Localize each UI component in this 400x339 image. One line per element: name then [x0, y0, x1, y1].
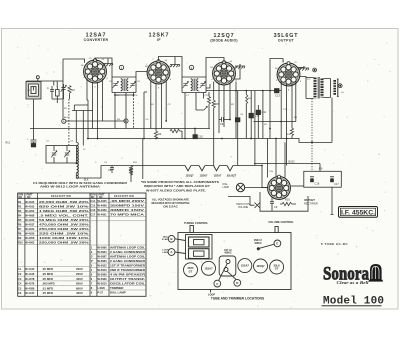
- svg-text:220,000 OHM .5W 20%: 220,000 OHM .5W 20%: [39, 241, 89, 245]
- ground at U2: [170, 57, 180, 68]
- svg-text:C15: C15: [90, 203, 95, 207]
- svg-text:NO: NO: [27, 197, 31, 199]
- wire T2 to U3 diode: [206, 84, 210, 88]
- svg-text:DESCRIPTION: DESCRIPTION: [114, 196, 134, 198]
- svg-text:W-5623: W-5623: [98, 268, 108, 272]
- svg-text:W-5689: W-5689: [98, 277, 108, 281]
- svg-text:W-4689: W-4689: [98, 208, 108, 212]
- svg-text:.005 MFD: .005 MFD: [42, 282, 55, 286]
- capacitor C4 on filament bus: [108, 166, 114, 174]
- trimmer pointer A: [168, 249, 175, 256]
- svg-text:C8: C8: [220, 122, 224, 126]
- resistor R7 diagonal: [246, 91, 248, 139]
- svg-text:C4: C4: [18, 282, 22, 286]
- note C1 required: [33, 181, 128, 189]
- svg-text:NO: NO: [19, 197, 23, 199]
- svg-text:12SK7: 12SK7: [200, 173, 208, 177]
- tube U4 35L6GT output: [275, 61, 303, 92]
- wire grid line of U1: [63, 59, 85, 119]
- svg-text:W-5622: W-5622: [98, 264, 108, 268]
- svg-text:E: E: [276, 242, 278, 246]
- svg-text:Clear as a Bell: Clear as a Bell: [337, 280, 370, 285]
- bus AVC y121: [66, 120, 126, 122]
- capacitor C8 coupling: [219, 117, 230, 126]
- volume control shaft: [275, 227, 278, 233]
- ground at U4: [298, 66, 310, 71]
- svg-text:20,000 OHM .5W 20%: 20,000 OHM .5W 20%: [39, 200, 89, 204]
- loop antenna L1: [26, 82, 41, 100]
- svg-text:12SA7: 12SA7: [214, 173, 222, 177]
- tube U1 12SA7 converter: [81, 58, 109, 89]
- svg-text:W-5688: W-5688: [98, 273, 108, 277]
- tube U3 12SQ7 detector: [210, 60, 238, 91]
- resistor R10: [280, 198, 296, 206]
- svg-text:W-1346: W-1346: [25, 272, 35, 276]
- svg-text:220 OHM .5W 10%: 220 OHM .5W 10%: [39, 232, 89, 236]
- gang condenser dashed gang line: [68, 99, 70, 146]
- svg-text:W-4029: W-4029: [25, 232, 35, 236]
- table left section entries: [18, 200, 89, 295]
- note components replaced: [141, 180, 219, 192]
- svg-text:AVC: AVC: [64, 116, 69, 119]
- resistor R12 on filament bus: [129, 166, 132, 177]
- svg-text:B153: B153: [289, 159, 296, 163]
- svg-text:R13: R13: [6, 142, 11, 145]
- svg-text:DESCRIPTION: DESCRIPTION: [51, 196, 71, 198]
- chassis diagram labels: [162, 220, 294, 301]
- svg-text:R9: R9: [319, 167, 323, 171]
- tube socket 35Z5GT: [184, 263, 198, 277]
- resistor R4: [154, 131, 161, 139]
- note all voltages: [152, 197, 190, 208]
- svg-text:350MFD 150V: 350MFD 150V: [110, 203, 144, 207]
- svg-text:W-4688: W-4688: [98, 203, 108, 207]
- svg-text:C10: C10: [198, 135, 203, 139]
- svg-text:W-4063: W-4063: [25, 241, 35, 245]
- svg-text:R9: R9: [18, 236, 22, 240]
- wire T1 secondary drops: [115, 93, 126, 129]
- wire T3 B+ drop dotted: [311, 99, 313, 172]
- svg-text:W-4698: W-4698: [25, 213, 35, 217]
- table row rules: [18, 203, 146, 291]
- resistor R5 horizontal: [170, 129, 182, 138]
- IF frequency box: [339, 207, 378, 218]
- svg-text:600V: 600V: [76, 282, 83, 286]
- svg-text:1M: 1M: [145, 66, 148, 68]
- node 4 circled: [124, 119, 128, 123]
- capacitor C9: [270, 197, 278, 212]
- wire T2 secondary drops: [185, 93, 204, 139]
- svg-text:.05 MFD 200V: .05 MFD 200V: [110, 199, 144, 203]
- svg-text:12SQ7: 12SQ7: [256, 264, 265, 268]
- svg-text:W-4058: W-4058: [25, 236, 35, 240]
- label BLK: [84, 179, 89, 182]
- filament labels: [185, 173, 236, 177]
- svg-text:456KC: 456KC: [254, 242, 262, 245]
- svg-text:C2: C2: [18, 272, 22, 276]
- filter capacitor bank C16 C17: [304, 167, 342, 188]
- svg-text:I.F. 455KC.: I.F. 455KC.: [341, 209, 375, 216]
- svg-text:I-4026: I-4026: [98, 286, 106, 290]
- wire antenna to C1 cluster: [27, 81, 64, 87]
- svg-text:.25 MFD: .25 MFD: [42, 291, 53, 295]
- svg-text:.01 MFD: .01 MFD: [42, 286, 53, 290]
- svg-text:200V: 200V: [76, 267, 83, 271]
- wire T1 to U2 grid: [136, 72, 147, 78]
- scan speckle noise: [4, 30, 391, 309]
- wire to IF box area: [331, 187, 334, 214]
- svg-text:ANTENNA LOOP COIL: ANTENNA LOOP COIL: [110, 246, 145, 250]
- svg-text:NO: NO: [99, 197, 103, 199]
- svg-text:470,000 OHM .5W 20%: 470,000 OHM .5W 20%: [39, 223, 89, 227]
- svg-text:A: A: [47, 86, 49, 90]
- tube socket 12SQ7: [254, 259, 268, 273]
- capacitor C1: [47, 86, 54, 99]
- svg-text:TRIMMER: TRIMMER: [110, 286, 124, 290]
- svg-text:1M: 1M: [275, 68, 278, 70]
- svg-text:C12: C12: [255, 114, 260, 118]
- junction dots bus y138.5: [87, 138, 277, 140]
- svg-text:2*: 2*: [91, 259, 93, 263]
- svg-text:C13: C13: [275, 94, 280, 98]
- node A circled: [62, 119, 66, 123]
- cathedral radio glyph: [369, 264, 383, 282]
- tube label 12SQ7 DIODE AUDIO: [210, 33, 237, 42]
- tube socket 12SA7: [202, 261, 216, 275]
- rectifier tube U5 35Z5GT: [268, 175, 291, 199]
- chassis layout diagram: [168, 226, 291, 293]
- tube U2 12SK7 IF amplifier: [145, 59, 173, 90]
- svg-text:C9: C9: [274, 205, 278, 209]
- chassis outline: [178, 233, 291, 290]
- wire U4 screen top route: [270, 59, 283, 64]
- svg-text:W-4030: W-4030: [25, 218, 35, 222]
- resistor R1 box: [56, 86, 60, 99]
- wire cluster bottoms to bus: [34, 99, 64, 129]
- svg-text:C11: C11: [262, 110, 267, 114]
- tube label 12SK7 IF: [149, 32, 170, 41]
- speaker voice coil LS: [335, 79, 339, 97]
- tube label 35L6GT OUTPUT: [274, 33, 299, 42]
- svg-text:LAMP: LAMP: [223, 186, 230, 189]
- wire U1 top to T1 primary: [95, 58, 112, 77]
- wire rectifier plate to filter: [291, 185, 304, 187]
- svg-text:OUTPUT TRANSF.: OUTPUT TRANSF.: [110, 277, 145, 281]
- svg-text:R1: R1: [18, 200, 22, 204]
- svg-text:30MFD 150V: 30MFD 150V: [110, 208, 144, 212]
- wire T1 AVC dashed drop: [115, 93, 134, 129]
- svg-text:ANTENNA LOOP COIL: ANTENNA LOOP COIL: [110, 255, 145, 259]
- svg-text:TUBE AND TRIMMER LOCATIONS: TUBE AND TRIMMER LOCATIONS: [211, 297, 265, 301]
- svg-text:35L6GT: 35L6GT: [227, 173, 237, 177]
- svg-text:C6: C6: [18, 291, 22, 295]
- wire AVC feed down: [142, 139, 144, 180]
- resistor R8: [290, 128, 293, 139]
- svg-text:R6: R6: [216, 102, 220, 106]
- svg-text:1000 OHM 10W 10%: 1000 OHM 10W 10%: [39, 236, 89, 240]
- label dial lamp: [223, 183, 230, 189]
- svg-text:4 IN PM SPEAKER: 4 IN PM SPEAKER: [110, 273, 146, 277]
- svg-text:A: A: [63, 120, 65, 124]
- svg-text:AND W-5612 LOOP ANTENNA: AND W-5612 LOOP ANTENNA: [40, 185, 101, 189]
- svg-text:W-4378: W-4378: [25, 277, 35, 281]
- svg-text:W-4034: W-4034: [25, 227, 35, 231]
- resistor R2: [68, 86, 75, 100]
- capacitor C13 blocking: [275, 89, 282, 98]
- svg-text:R3: R3: [18, 209, 22, 213]
- svg-text:W-4386: W-4386: [25, 286, 35, 290]
- wire U2 top to T2 primary: [159, 57, 183, 78]
- gang condenser top view: [186, 235, 213, 260]
- loop tick: [210, 290, 212, 293]
- label switch on volume: [236, 203, 250, 209]
- wire U4 pins down: [270, 63, 296, 166]
- svg-text:TUNING CONTROL: TUNING CONTROL: [184, 221, 209, 225]
- trimmer callout D: [234, 279, 241, 286]
- svg-text:820 OHM 2W 10%: 820 OHM 2W 10%: [39, 204, 89, 208]
- svg-text:GT: GT: [189, 269, 193, 273]
- svg-text:C17: C17: [334, 182, 339, 186]
- wire U3 top to T2 secondary: [206, 58, 224, 78]
- svg-text:200V: 200V: [76, 272, 83, 276]
- svg-text:C14: C14: [90, 199, 95, 203]
- rectifier cathode loop: [260, 192, 308, 211]
- wire U4 plate to T3 primary: [300, 77, 306, 78]
- svg-text:DIAL LAMP: DIAL LAMP: [110, 291, 126, 295]
- svg-text:OSCILLATOR COIL: OSCILLATOR COIL: [110, 282, 145, 286]
- junction dots mid: [114, 90, 313, 167]
- svg-text:C4: C4: [108, 168, 112, 172]
- trimmer callout C: [214, 280, 221, 287]
- svg-text:RECTIFIER: RECTIFIER: [304, 202, 318, 206]
- svg-text:W-5684: W-5684: [98, 250, 108, 254]
- table header text: [18, 194, 134, 199]
- resistor R13 ballast: [129, 168, 132, 183]
- svg-text:W-4033: W-4033: [25, 204, 35, 208]
- tube label 12SA7 CONVERTER: [84, 32, 109, 41]
- bus B- y128.5: [30, 128, 210, 130]
- svg-text:.05 MFD: .05 MFD: [42, 277, 53, 281]
- svg-text:.05 MFD: .05 MFD: [42, 267, 53, 271]
- 1st IF can: [219, 256, 236, 276]
- svg-text:C16: C16: [315, 182, 320, 186]
- svg-text:W-5686: W-5686: [98, 246, 108, 250]
- svg-text:W-4035: W-4035: [25, 200, 35, 204]
- terminal screw E1: [313, 68, 317, 72]
- svg-text:12SA7: 12SA7: [241, 264, 250, 268]
- svg-text:W-5610: W-5610: [98, 282, 108, 286]
- svg-text:R10: R10: [18, 241, 23, 245]
- table right section entries: [90, 199, 146, 295]
- label R13: [6, 142, 11, 145]
- bus B153: [254, 159, 320, 171]
- svg-text:C5: C5: [18, 286, 22, 290]
- svg-text:W-4691: W-4691: [98, 212, 108, 216]
- svg-text:56 MEG OHM .5W 20%: 56 MEG OHM .5W 20%: [39, 218, 89, 222]
- svg-text:.25 MFD: .25 MFD: [42, 272, 53, 276]
- svg-text:W-6077 ALEKO COUPLING PLATE.: W-6077 ALEKO COUPLING PLATE.: [146, 188, 206, 192]
- svg-text:IF: IF: [157, 38, 161, 42]
- capacitor C14: [249, 91, 296, 139]
- svg-text:NO: NO: [91, 197, 95, 199]
- svg-text:R5: R5: [18, 218, 22, 222]
- svg-text:2 GANG CONDENSER: 2 GANG CONDENSER: [110, 259, 146, 263]
- svg-text:GT: GT: [275, 267, 279, 271]
- svg-text:CONVERTER: CONVERTER: [84, 38, 109, 42]
- capacitor C10: [193, 129, 203, 139]
- svg-text:1M: 1M: [210, 67, 213, 69]
- Model 100: [322, 296, 385, 308]
- svg-text:R10: R10: [285, 198, 290, 202]
- capacitor C3 line bypass: [31, 129, 37, 148]
- svg-text:W-4376: W-4376: [25, 282, 35, 286]
- capacitor C11: [256, 105, 266, 139]
- svg-text:SCALE: SCALE: [162, 238, 170, 241]
- wire U1 pins down: [74, 79, 102, 139]
- filament bus y165.5: [101, 165, 262, 167]
- switch on volume control: [228, 197, 260, 209]
- svg-text:R2: R2: [18, 204, 22, 208]
- svg-text:LEAD: LEAD: [163, 251, 169, 254]
- resistor R6: [212, 100, 219, 165]
- bus ground y138.5: [87, 139, 332, 143]
- svg-text:R7: R7: [18, 227, 22, 231]
- svg-text:R4: R4: [158, 132, 162, 136]
- svg-text:.5 MEG VOL. CONT.: .5 MEG VOL. CONT.: [39, 213, 89, 217]
- ground at U3: [234, 64, 245, 79]
- wire U3 pins down: [214, 82, 236, 139]
- svg-text:5 TUBE AC-DC: 5 TUBE AC-DC: [321, 242, 348, 246]
- antenna terminal: [36, 76, 39, 81]
- IF transformer T1: [112, 65, 136, 92]
- trimmer C2: [61, 84, 67, 99]
- svg-text:W-1202: W-1202: [25, 209, 35, 213]
- diode load line: [206, 90, 275, 92]
- svg-text:1ST IF TRANSFORMER: 1ST IF TRANSFORMER: [110, 264, 146, 268]
- svg-text:C16: C16: [90, 208, 95, 212]
- svg-text:C17: C17: [90, 212, 95, 216]
- terminal screw E2: [338, 84, 342, 88]
- svg-text:2ND IF TRANSFORMER: 2ND IF TRANSFORMER: [110, 268, 146, 272]
- svg-text:P-27: P-27: [98, 291, 104, 295]
- svg-text:R8: R8: [18, 232, 22, 236]
- svg-text:70 MFD MICA: 70 MFD MICA: [110, 212, 146, 216]
- trimmer callout E: [274, 240, 281, 247]
- heater bus into rectifier: [262, 166, 268, 188]
- svg-text:1M: 1M: [81, 65, 84, 67]
- wire T3 secondary drop: [331, 98, 333, 143]
- oscillator coil L2: [72, 111, 101, 179]
- svg-text:W-5687: W-5687: [98, 255, 108, 259]
- tuning control shaft: [190, 226, 193, 233]
- component value labels scatter: [28, 79, 345, 173]
- svg-text:(DIODE AUDIO): (DIODE AUDIO): [210, 38, 237, 42]
- svg-text:R2: R2: [72, 88, 76, 92]
- wire U2 pins down: [144, 81, 166, 139]
- trimmer pointer B: [168, 235, 175, 242]
- svg-text:35Z5GT: 35Z5GT: [304, 198, 315, 202]
- svg-text:W-1343: W-1343: [25, 267, 35, 271]
- svg-text:1 MEG OHM .5W 20%: 1 MEG OHM .5W 20%: [39, 209, 89, 213]
- ground at U1: [103, 58, 113, 66]
- tuning gang trimmer box: [46, 146, 77, 164]
- volume control R4 pot: [196, 92, 211, 129]
- svg-text:ON 117AC: ON 117AC: [163, 204, 178, 208]
- svg-text:W-4635: W-4635: [98, 199, 108, 203]
- dial lamp I1: [236, 183, 267, 191]
- svg-text:W-4037: W-4037: [25, 223, 35, 227]
- svg-text:R6: R6: [18, 223, 22, 227]
- label 5 tube ac-dc: [321, 242, 348, 246]
- svg-text:456KC: 456KC: [224, 252, 232, 255]
- svg-text:12SA7: 12SA7: [204, 266, 213, 270]
- output transformer T3: [306, 77, 331, 99]
- svg-text:VOLUME CONTROL: VOLUME CONTROL: [268, 220, 294, 224]
- svg-text:C1: C1: [18, 267, 22, 271]
- capacitor C12a: [235, 118, 240, 166]
- tube socket 12SK7: [238, 259, 252, 273]
- svg-text:400V: 400V: [76, 291, 83, 295]
- IF transformer T2: [182, 65, 206, 92]
- Sonora logo: [323, 264, 383, 286]
- svg-text:400V: 400V: [76, 277, 83, 281]
- svg-text:VOLUME: VOLUME: [238, 206, 249, 209]
- label 35Z5GT rectifier: [304, 198, 318, 206]
- svg-text:2 GANG CONDENSER: 2 GANG CONDENSER: [110, 250, 146, 254]
- wire rectifier top feeds: [268, 139, 286, 178]
- svg-text:W-1344: W-1344: [25, 291, 35, 295]
- svg-text:12SQ7: 12SQ7: [185, 173, 194, 177]
- parts list table: [18, 193, 146, 296]
- svg-text:C3: C3: [18, 277, 22, 281]
- svg-text:OUTPUT: OUTPUT: [278, 38, 295, 42]
- svg-text:W-5683: W-5683: [98, 259, 108, 263]
- wire screen drops U3-U4: [238, 91, 263, 166]
- svg-text:1*: 1*: [91, 255, 93, 259]
- tube socket 35L6GT: [270, 260, 284, 274]
- filament tap dips: [185, 166, 233, 171]
